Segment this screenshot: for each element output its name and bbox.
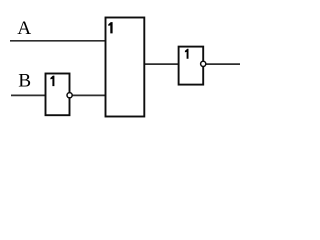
svg-text:B: B [18,70,31,91]
svg-text:A: A [17,18,31,39]
